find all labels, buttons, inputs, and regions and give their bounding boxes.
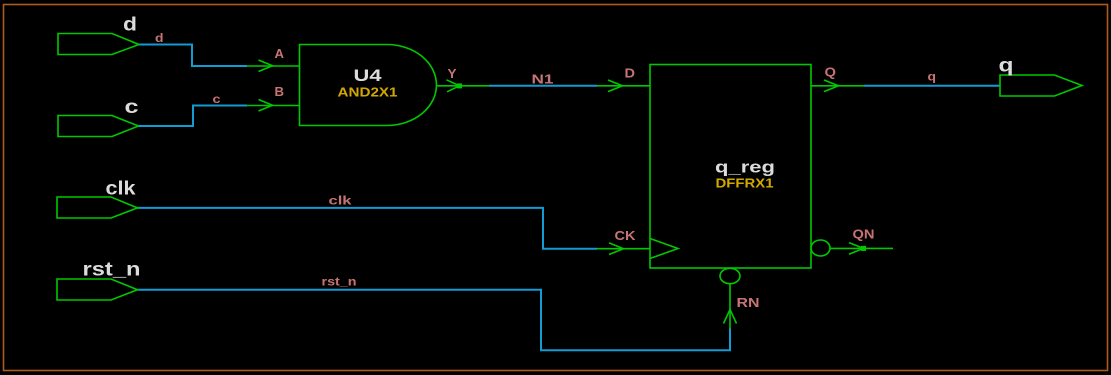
wire net clk [138,208,598,249]
pin RN bubble [720,268,740,283]
wire net q [864,85,1000,87]
svg-text:CK: CK [615,229,636,243]
junction dot node N1 [457,83,462,88]
svg-text:rst_n: rst_n [322,275,357,289]
input port d [58,34,139,55]
wire net N1 [489,85,597,87]
svg-text:AND2X1: AND2X1 [338,86,398,100]
svg-text:RN: RN [737,296,760,310]
pin A stub with arrowhead [247,60,300,72]
svg-text:B: B [275,85,285,99]
svg-text:q: q [999,54,1014,76]
svg-text:clk: clk [329,194,352,208]
pin B stub with arrowhead [247,100,300,112]
pin Q stub with arrowhead [811,80,864,92]
svg-text:Q: Q [825,66,837,80]
pin D stub with arrowhead [597,80,650,92]
and-gate U4 [300,45,437,126]
svg-text:q: q [928,70,937,84]
wire net c [139,106,248,127]
svg-text:clk: clk [106,178,136,200]
junction dot QN [861,246,866,251]
clock triangle pin CK [650,239,678,259]
svg-text:c: c [125,96,139,118]
output port q [1000,75,1082,96]
wire net rst_n [138,290,731,351]
pin CK stub with arrowhead [597,243,650,255]
svg-text:U4: U4 [354,66,383,85]
pin RN stub with arrowhead [724,284,737,329]
svg-text:N1: N1 [532,73,554,87]
pin QN stub with arrowhead [830,243,893,255]
wire net d [139,45,247,67]
svg-text:q_reg: q_reg [715,158,775,177]
svg-text:DFFRX1: DFFRX1 [716,177,774,191]
input port clk [57,197,138,218]
input port rst_n [57,279,138,300]
svg-text:rst_n: rst_n [83,259,141,281]
svg-text:c: c [213,94,222,106]
svg-text:d: d [123,14,137,36]
svg-text:D: D [625,67,636,81]
svg-text:QN: QN [853,228,875,242]
flip-flop q_reg body [650,65,811,269]
svg-text:Y: Y [448,67,458,81]
svg-text:d: d [155,33,164,45]
svg-text:A: A [275,47,285,61]
pin Y stub with arrowhead [437,80,490,92]
input port c [58,116,139,137]
pin QN bubble [811,240,830,256]
